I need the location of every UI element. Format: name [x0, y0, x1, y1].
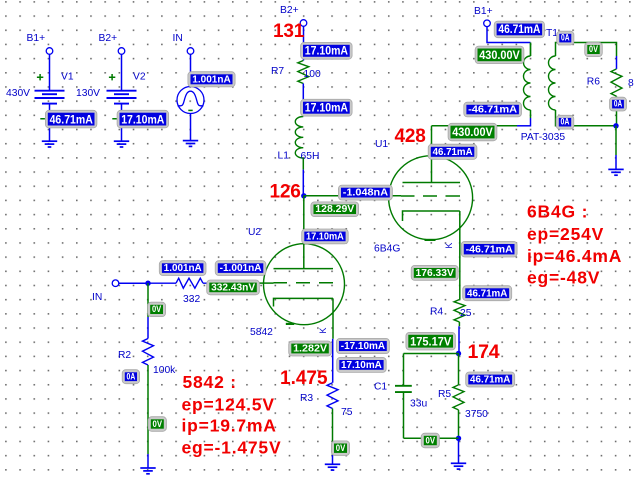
wire secondary node to ground green — [615, 126, 617, 155]
triode U2 (5842) envelope — [264, 244, 345, 325]
voltage source V2 130V — [76, 54, 146, 141]
wire L1 lead blue — [302, 170, 304, 196]
ground at R2 — [140, 468, 155, 474]
U1 plate lead — [431, 126, 433, 183]
voltage label 0V below R3 — [331, 441, 349, 456]
triode U1 (6B4G) envelope — [389, 156, 473, 240]
terminal B1+ (top right) — [484, 20, 491, 27]
current label 0A at T1 secondary bottom — [556, 115, 574, 129]
U2 grid lead — [258, 282, 274, 284]
ground at V2 — [114, 141, 129, 147]
wire node126 to U2 plate — [303, 196, 305, 269]
svg-text:0A: 0A — [561, 33, 570, 43]
svg-text:46.71mA: 46.71mA — [50, 112, 93, 126]
wire R5 to bottom node — [458, 410, 460, 438]
current label 0A at T1 secondary top — [557, 31, 574, 45]
svg-text:0A: 0A — [614, 99, 623, 109]
svg-text:K: K — [318, 327, 328, 333]
svg-text:6B4G :: 6B4G : — [527, 202, 588, 222]
wire R2 ground stub — [147, 454, 149, 468]
svg-text:17.10mA: 17.10mA — [341, 360, 382, 371]
current label 1.001nA at grid resistor — [159, 261, 206, 276]
U1 plate bar — [403, 182, 461, 184]
svg-text:332: 332 — [183, 294, 200, 305]
svg-text:174: 174 — [468, 341, 500, 363]
U1 cathode — [403, 211, 460, 300]
svg-text:75: 75 — [341, 407, 353, 418]
T1 secondary bottom lead — [556, 110, 617, 126]
wire R2 top blue — [147, 317, 149, 339]
svg-text:126: 126 — [270, 181, 301, 202]
svg-text:46.71mA: 46.71mA — [498, 22, 540, 36]
T1 primary bottom stub green — [530, 110, 532, 118]
svg-text:C1: C1 — [374, 381, 387, 392]
voltage label 332.43nV at U2 grid — [207, 280, 260, 295]
ground at T1 secondary — [608, 169, 623, 175]
wire R2 top green — [147, 283, 149, 317]
svg-text:5842: 5842 — [250, 327, 273, 338]
svg-text:175.17V: 175.17V — [410, 334, 452, 348]
U2 heater tick — [286, 323, 294, 325]
svg-text:332.43nV: 332.43nV — [211, 282, 255, 293]
svg-text:U1: U1 — [375, 139, 388, 150]
svg-text:17.10mA: 17.10mA — [305, 101, 348, 115]
terminal IN (left) — [112, 280, 119, 287]
svg-text:-46.71mA: -46.71mA — [466, 245, 513, 256]
svg-text:V2: V2 — [133, 72, 146, 83]
voltage label 0V at C1 bottom — [421, 433, 439, 448]
node 174 junction — [456, 351, 461, 356]
resistor R4 — [454, 300, 465, 323]
wire R7 to L1 — [302, 84, 304, 117]
ground at IN source — [183, 141, 198, 147]
resistor R6 — [611, 69, 622, 96]
wire R4 to node 174 — [458, 326, 460, 353]
wire C1 bottom to node — [404, 437, 459, 439]
current label -46.71mA at U1 cathode — [461, 241, 517, 257]
svg-text:B2+: B2+ — [99, 33, 118, 44]
svg-text:33u: 33u — [410, 398, 427, 409]
wire R2 to ground green — [147, 365, 149, 454]
T1 primary bottom stub blue — [530, 118, 532, 127]
input node junction — [145, 281, 150, 286]
svg-text:eg=-48V: eg=-48V — [527, 268, 600, 288]
svg-text:L1: L1 — [278, 150, 290, 161]
svg-text:130V: 130V — [76, 88, 100, 99]
svg-text:17.10mA: 17.10mA — [121, 112, 164, 126]
voltage label 430.00V bottom — [448, 123, 497, 141]
wire node174 to C1 — [404, 353, 459, 355]
resistor R3 — [327, 383, 338, 409]
current label -17.10mA at U2 cathode — [336, 338, 389, 353]
ground at V1 — [42, 141, 57, 147]
svg-text:-46.71mA: -46.71mA — [468, 105, 517, 116]
voltage label 176.33V at U1 cathode — [411, 265, 458, 280]
svg-text:ep=254V: ep=254V — [527, 224, 604, 244]
svg-text:IN: IN — [173, 33, 183, 44]
terminal B1+ (left) — [46, 48, 53, 55]
svg-text:R4: R4 — [430, 306, 443, 317]
svg-text:-17.10mA: -17.10mA — [341, 341, 385, 352]
U1 heater tick — [425, 239, 436, 241]
wire L1 to node 126 — [302, 158, 304, 170]
svg-text:PAT-3035: PAT-3035 — [521, 132, 566, 143]
svg-text:B2+: B2+ — [280, 5, 299, 16]
svg-text:R6: R6 — [587, 76, 600, 87]
svg-text:1.001nA: 1.001nA — [164, 263, 202, 274]
voltage source V1 430V — [6, 54, 74, 141]
U2 plate bar — [274, 268, 334, 270]
U2 grid dashes — [274, 282, 334, 284]
wire U1 plate to T1 blue — [517, 125, 531, 127]
svg-text:0A: 0A — [561, 117, 570, 127]
svg-text:eg=-1.475V: eg=-1.475V — [182, 437, 282, 457]
wire R3 ground stub — [332, 455, 334, 464]
voltage label 0V above R2 — [148, 302, 166, 316]
wire B1+ to T1 primary — [487, 27, 531, 43]
svg-text:0V: 0V — [153, 419, 163, 429]
wire U1 plate to T1 green — [432, 125, 518, 127]
svg-text:0V: 0V — [152, 304, 161, 314]
voltage label 0V at R6 top — [585, 42, 603, 56]
svg-text:-1.048nA: -1.048nA — [343, 188, 388, 199]
svg-text:U2: U2 — [248, 227, 261, 238]
ground at R5 — [451, 463, 466, 469]
current label -1.048nA at U1 grid — [338, 185, 392, 200]
voltage label 128.29V at node 126 — [311, 202, 359, 217]
svg-text:ep=124.5V: ep=124.5V — [182, 395, 275, 415]
T1 primary top stub — [530, 43, 532, 57]
current label 17.10mA at U2 plate — [302, 229, 349, 244]
current label 17.10mA below R7 — [301, 99, 353, 116]
wire R3 to ground green — [332, 409, 334, 456]
svg-text:430.00V: 430.00V — [479, 48, 520, 62]
current label -46.71mA at T1 primary — [464, 102, 522, 117]
current label 46.71mA at B1+ — [494, 21, 544, 38]
svg-text:46.71mA: 46.71mA — [467, 288, 507, 299]
voltage label 430.00V top — [475, 46, 524, 64]
wire B2+ to R7 — [303, 26, 305, 60]
svg-text:6B4G: 6B4G — [374, 243, 400, 254]
svg-text:R3: R3 — [300, 393, 313, 404]
svg-text:8: 8 — [628, 78, 634, 89]
current label -1.001nA at U2 grid — [215, 261, 266, 276]
wire node126 to U1 grid — [304, 195, 401, 197]
terminal IN (top) — [187, 48, 194, 55]
resistor R2 — [143, 339, 154, 366]
current label 17.10mA at V2 — [117, 110, 169, 128]
T1 secondary top lead — [556, 43, 617, 57]
svg-text:100k: 100k — [153, 365, 176, 376]
current label 17.10mA above R7 — [301, 42, 353, 59]
svg-text:17.10mA: 17.10mA — [306, 231, 344, 242]
U2 cathode — [274, 298, 334, 338]
resistor R5 — [453, 385, 464, 410]
wire R6 top lead — [616, 56, 618, 69]
node at T1 secondary bottom — [613, 123, 618, 128]
svg-text:1.282V: 1.282V — [293, 344, 327, 355]
current label 46.71mA at R5 — [466, 372, 515, 387]
current label 46.71mA at V1 — [45, 110, 97, 128]
svg-text:ip=46.4mA: ip=46.4mA — [527, 246, 622, 266]
svg-text:428: 428 — [395, 126, 426, 147]
svg-text:1.475: 1.475 — [280, 368, 328, 389]
svg-text:V1: V1 — [61, 72, 74, 83]
svg-text:B1+: B1+ — [27, 33, 46, 44]
svg-text:46.71mA: 46.71mA — [470, 375, 510, 386]
voltage label 1.282V at U2 cathode — [289, 341, 332, 356]
sine source IN — [177, 87, 204, 114]
wire node174 to R5 — [458, 354, 460, 385]
svg-text:0V: 0V — [336, 443, 346, 453]
capacitor C1 — [395, 354, 412, 439]
svg-text:0V: 0V — [426, 435, 436, 445]
svg-text:1.001nA: 1.001nA — [192, 75, 231, 86]
svg-text:R7: R7 — [271, 66, 284, 77]
svg-text:3750: 3750 — [465, 409, 488, 420]
current label 17.10mA at R3 — [337, 357, 387, 372]
svg-text:25: 25 — [460, 308, 472, 319]
svg-text:0A: 0A — [127, 371, 136, 381]
current label 46.71mA at R4 — [463, 286, 512, 301]
terminal B2+ (top middle) — [300, 20, 307, 27]
current label 0A at R6 — [610, 97, 627, 111]
transformer T1 primary winding — [530, 43, 532, 57]
svg-text:176.33V: 176.33V — [416, 268, 455, 279]
svg-text:128.29V: 128.29V — [315, 204, 354, 215]
resistor R1 (332) — [148, 282, 210, 284]
wire R4 tail green — [458, 322, 460, 326]
svg-text:R2: R2 — [118, 350, 131, 361]
terminal B2+ (left) — [118, 48, 125, 55]
wire IN to node — [119, 282, 148, 284]
voltage label 175.17V at node 174 — [406, 332, 456, 350]
svg-text:B1+: B1+ — [474, 6, 493, 17]
svg-text:5842 :: 5842 : — [183, 372, 237, 392]
svg-text:131: 131 — [273, 21, 305, 42]
current label 1.001nA at IN source — [188, 72, 235, 87]
svg-text:430V: 430V — [6, 88, 30, 99]
wire U2 cathode to R3 — [332, 339, 334, 383]
bottom node at R5/C1 — [456, 436, 461, 441]
inductor L1 — [295, 117, 303, 159]
svg-text:K: K — [444, 242, 454, 248]
svg-text:100: 100 — [304, 69, 321, 80]
svg-text:R5: R5 — [438, 389, 451, 400]
U1 grid dashes — [401, 195, 460, 197]
wire IN source leads — [190, 54, 192, 140]
wire secondary node ground stub — [615, 155, 617, 169]
svg-text:0V: 0V — [589, 44, 598, 54]
voltage label 0V below R2 — [148, 417, 166, 432]
svg-text:ip=19.7mA: ip=19.7mA — [182, 416, 277, 436]
svg-text:IN: IN — [92, 292, 102, 303]
wire bottom node to ground — [458, 438, 460, 463]
current label 0A at R2 — [122, 370, 139, 384]
ground at R3 — [325, 464, 340, 470]
svg-text:46.71mA: 46.71mA — [433, 147, 473, 158]
svg-text:17.10mA: 17.10mA — [305, 44, 348, 58]
resistor R7 — [298, 61, 309, 84]
wire R6 to bottom node — [616, 96, 618, 126]
transformer T1 secondary winding — [549, 56, 556, 110]
current label 46.71mA at U1 plate — [428, 144, 477, 159]
node 126 junction — [301, 193, 306, 198]
svg-text:-1.001nA: -1.001nA — [220, 263, 262, 274]
svg-text:430.00V: 430.00V — [452, 125, 493, 139]
